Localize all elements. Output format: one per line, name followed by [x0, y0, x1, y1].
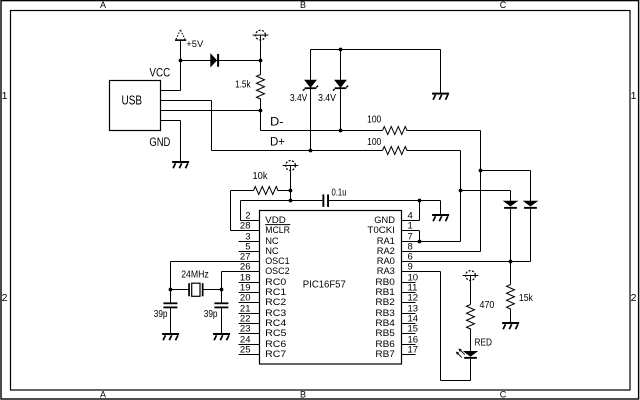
svg-text:C: C	[500, 0, 507, 10]
power symbol VBUS pullup	[253, 30, 269, 40]
svg-text:GND: GND	[149, 136, 170, 149]
svg-text:A: A	[100, 0, 106, 10]
svg-text:USB: USB	[122, 93, 143, 108]
wire VDD pin2 stub	[241, 220, 260, 222]
wire D- to corner	[407, 130, 481, 132]
pin stub 3 (NC)	[239, 241, 260, 243]
svg-text:1: 1	[408, 221, 413, 232]
power symbol LED rail	[463, 271, 479, 281]
wire MCLR pin28	[231, 230, 260, 232]
wire OSC1 pin27	[171, 261, 260, 263]
svg-text:1: 1	[631, 90, 637, 102]
svg-text:VCC: VCC	[149, 67, 170, 80]
svg-text:26: 26	[240, 262, 251, 273]
svg-text:39p: 39p	[154, 309, 168, 320]
wire OSC2 pin26	[222, 271, 260, 273]
svg-text:D+: D+	[270, 135, 285, 148]
wire zener top rail	[311, 49, 441, 51]
zener diode D3 3.4V	[333, 80, 348, 90]
junction D- branch	[479, 169, 483, 173]
ground C2	[213, 333, 230, 340]
resistor R1 1.5k	[257, 75, 265, 100]
svg-text:10k: 10k	[253, 171, 268, 182]
wire top rail right	[217, 60, 261, 62]
svg-text:RB2: RB2	[375, 297, 395, 308]
junction RA0 / 15k	[509, 260, 513, 264]
wire supply to VDD node	[290, 166, 292, 201]
diode D1	[211, 54, 220, 67]
wire top rail left	[181, 60, 211, 62]
wire supply to 470	[470, 280, 472, 304]
svg-text:15: 15	[408, 324, 419, 335]
junction T0CKI / RA1	[418, 240, 422, 244]
wire VDD net ground drop	[440, 201, 442, 215]
svg-text:25: 25	[240, 345, 251, 356]
wire crystal right lead	[204, 289, 222, 291]
wire 15k top lead	[510, 262, 512, 285]
pin stub 25 (RC7)	[239, 354, 260, 356]
pin stub 22 (RC4)	[239, 323, 260, 325]
wire OSC1 drop	[170, 262, 172, 290]
svg-text:T0CKI: T0CKI	[367, 225, 395, 236]
wire RA3 drop	[440, 272, 442, 381]
svg-text:24MHz: 24MHz	[181, 270, 209, 281]
wire MCLR drop	[230, 191, 232, 231]
capacitor C2 39p	[214, 302, 228, 308]
svg-text:A: A	[100, 389, 106, 399]
wire C2 top lead	[221, 290, 223, 303]
junction crystal left	[169, 288, 173, 292]
wire USB pin2	[161, 100, 212, 102]
svg-text:0.1u: 0.1u	[332, 187, 347, 198]
wire 10k left lead	[231, 190, 254, 192]
wire D5 top lead	[530, 171, 532, 202]
resistor R2 10k	[254, 187, 279, 195]
junction zener rail	[339, 48, 343, 52]
wire 1.5k bottom lead	[260, 99, 262, 111]
svg-text:28: 28	[240, 221, 251, 232]
wire RA0 pin6	[402, 261, 531, 263]
wire +5V stem	[180, 40, 182, 60]
pin stub 20 (RC2)	[239, 302, 260, 304]
resistor R3 100 (D-)	[383, 127, 408, 135]
svg-text:RA3: RA3	[377, 266, 395, 277]
wire crystal left lead	[171, 289, 189, 291]
svg-text:9: 9	[408, 262, 413, 273]
wire 1.5k top lead	[260, 61, 262, 75]
wire D4 bottom lead	[510, 209, 512, 262]
svg-text:12: 12	[408, 293, 419, 304]
wire GND pin4 stub	[402, 220, 420, 222]
wire D+ riser	[211, 101, 213, 151]
svg-text:100: 100	[367, 137, 382, 148]
pin stub 15 (RB5)	[402, 333, 416, 335]
junction top rail / 1.5k	[259, 59, 263, 63]
svg-text:17: 17	[408, 345, 419, 356]
junction pin4 riser	[418, 199, 422, 203]
wire C2 bottom lead	[221, 308, 223, 333]
junction 10k / supply	[289, 189, 293, 193]
+5V supply symbol	[175, 30, 186, 40]
pin stub 11 (RB1)	[402, 292, 416, 294]
svg-text:C: C	[500, 389, 507, 399]
svg-text:2: 2	[2, 292, 8, 304]
wire zener D2 top lead	[310, 50, 312, 81]
pin stub 12 (RB2)	[402, 302, 416, 304]
junction 1.5k bottom	[259, 109, 263, 113]
LED D6 RED	[456, 348, 478, 358]
svg-text:RB7: RB7	[375, 349, 395, 360]
wire GND pin4 riser	[419, 201, 421, 221]
svg-text:2: 2	[631, 292, 637, 304]
svg-text:3.4V: 3.4V	[318, 93, 336, 104]
wire supply to 1.5k	[260, 35, 262, 60]
svg-text:D-: D-	[270, 115, 284, 128]
pin stub 23 (RC5)	[239, 333, 260, 335]
ground zener rail	[432, 93, 449, 100]
wire D- branch to D5	[481, 170, 531, 172]
pin stub 19 (RC1)	[239, 292, 260, 294]
wire VDD net right	[329, 200, 441, 202]
wire D- vertical to RA2	[480, 131, 482, 252]
wire OSC2 drop	[221, 272, 223, 290]
pin stub 13 (RB3)	[402, 313, 416, 315]
wire VDD pin2 riser	[240, 201, 242, 221]
wire VCC riser	[180, 61, 182, 91]
svg-text:39p: 39p	[204, 309, 218, 320]
wire zener D2 bottom lead	[310, 89, 312, 151]
wire C1 top lead	[170, 290, 172, 303]
junction D3 to D-	[339, 129, 343, 133]
svg-text:1: 1	[2, 90, 8, 102]
svg-text:RED: RED	[475, 337, 493, 348]
ground USB	[172, 161, 189, 168]
pin stub 5 (NC)	[239, 251, 260, 253]
pin stub 18 (RC0)	[239, 282, 260, 284]
svg-text:RC7: RC7	[265, 349, 286, 360]
ground C1	[162, 333, 179, 340]
capacitor C1 39p	[163, 302, 177, 308]
svg-text:OSC2: OSC2	[265, 266, 290, 277]
wire USB GND drop	[180, 121, 182, 162]
svg-text:1.5k: 1.5k	[235, 80, 251, 91]
svg-text:3.4V: 3.4V	[290, 93, 308, 104]
resistor R5 470	[467, 305, 475, 330]
svg-text:RB5: RB5	[375, 328, 395, 339]
svg-text:B: B	[300, 389, 306, 399]
svg-text:MCLR: MCLR	[265, 225, 290, 236]
wire D+ branch to D4	[461, 190, 511, 192]
junction D+ branch	[459, 189, 463, 193]
wire RA1 pin7	[402, 241, 461, 243]
USB connector J1	[110, 81, 161, 131]
svg-text:+5V: +5V	[186, 39, 204, 49]
IC U1 PIC16F57 body	[260, 211, 402, 365]
wire RA2 pin8	[402, 251, 481, 253]
svg-text:PIC16F57: PIC16F57	[303, 278, 346, 290]
wire VDD net left	[241, 200, 323, 202]
crystal X1 24MHz	[188, 283, 203, 296]
diode D4	[504, 201, 517, 209]
wire RA3 pin9	[402, 271, 441, 273]
zener diode D2 3.4V	[303, 80, 318, 90]
junction VDD node	[289, 199, 293, 203]
junction crystal right	[220, 288, 224, 292]
wire 10k right lead	[278, 190, 291, 192]
wire T0CKI pin1 stub	[402, 230, 420, 232]
pin stub 17 (RB7)	[402, 354, 416, 356]
diode D5	[524, 201, 537, 209]
pin stub 14 (RB4)	[402, 323, 416, 325]
svg-text:RC5: RC5	[265, 328, 286, 339]
resistor R4 100 (D+)	[383, 147, 408, 155]
wire VCC pin	[161, 90, 181, 92]
wire USB GND pin	[161, 120, 181, 122]
wire D+ segment	[212, 150, 383, 152]
wire D- segment	[261, 130, 383, 132]
wire zener D3 bottom lead	[340, 89, 342, 131]
MCLR overline	[265, 224, 290, 226]
pin stub 16 (RB6)	[402, 344, 416, 346]
wire LED bottom lead	[470, 359, 472, 381]
wire T0CKI drop	[419, 231, 421, 242]
pin stub 21 (RC3)	[239, 313, 260, 315]
ground 15k	[502, 322, 519, 329]
svg-text:23: 23	[240, 324, 251, 335]
wire D- drop	[260, 111, 262, 131]
pin stub 10 (RB0)	[402, 282, 416, 284]
svg-text:15k: 15k	[519, 293, 533, 304]
wire D4 top lead	[510, 191, 512, 202]
power symbol VDD rail	[283, 161, 299, 171]
svg-text:B: B	[300, 0, 306, 10]
wire 15k bottom lead	[510, 309, 512, 323]
resistor R6 15k	[507, 285, 515, 310]
capacitor C3 0.1u	[322, 194, 329, 207]
svg-text:20: 20	[240, 293, 251, 304]
junction D2 to D+	[309, 149, 313, 153]
svg-text:100: 100	[367, 115, 382, 126]
wire D+ vertical to RA1	[460, 151, 462, 242]
wire D5 bottom lead	[530, 209, 532, 262]
wire RA3 bottom run	[441, 380, 471, 382]
wire 470 to LED	[470, 329, 472, 352]
wire USB pin3	[161, 110, 261, 112]
ground VDD net	[432, 214, 449, 221]
svg-text:470: 470	[480, 300, 495, 311]
junction top rail / VCC riser	[179, 59, 183, 63]
wire zener rail ground drop	[440, 50, 442, 93]
svg-text:RC2: RC2	[265, 297, 286, 308]
pin stub 24 (RC6)	[239, 344, 260, 346]
wire zener D3 top lead	[340, 50, 342, 81]
wire C1 bottom lead	[170, 308, 172, 333]
wire D+ to corner	[407, 150, 461, 152]
